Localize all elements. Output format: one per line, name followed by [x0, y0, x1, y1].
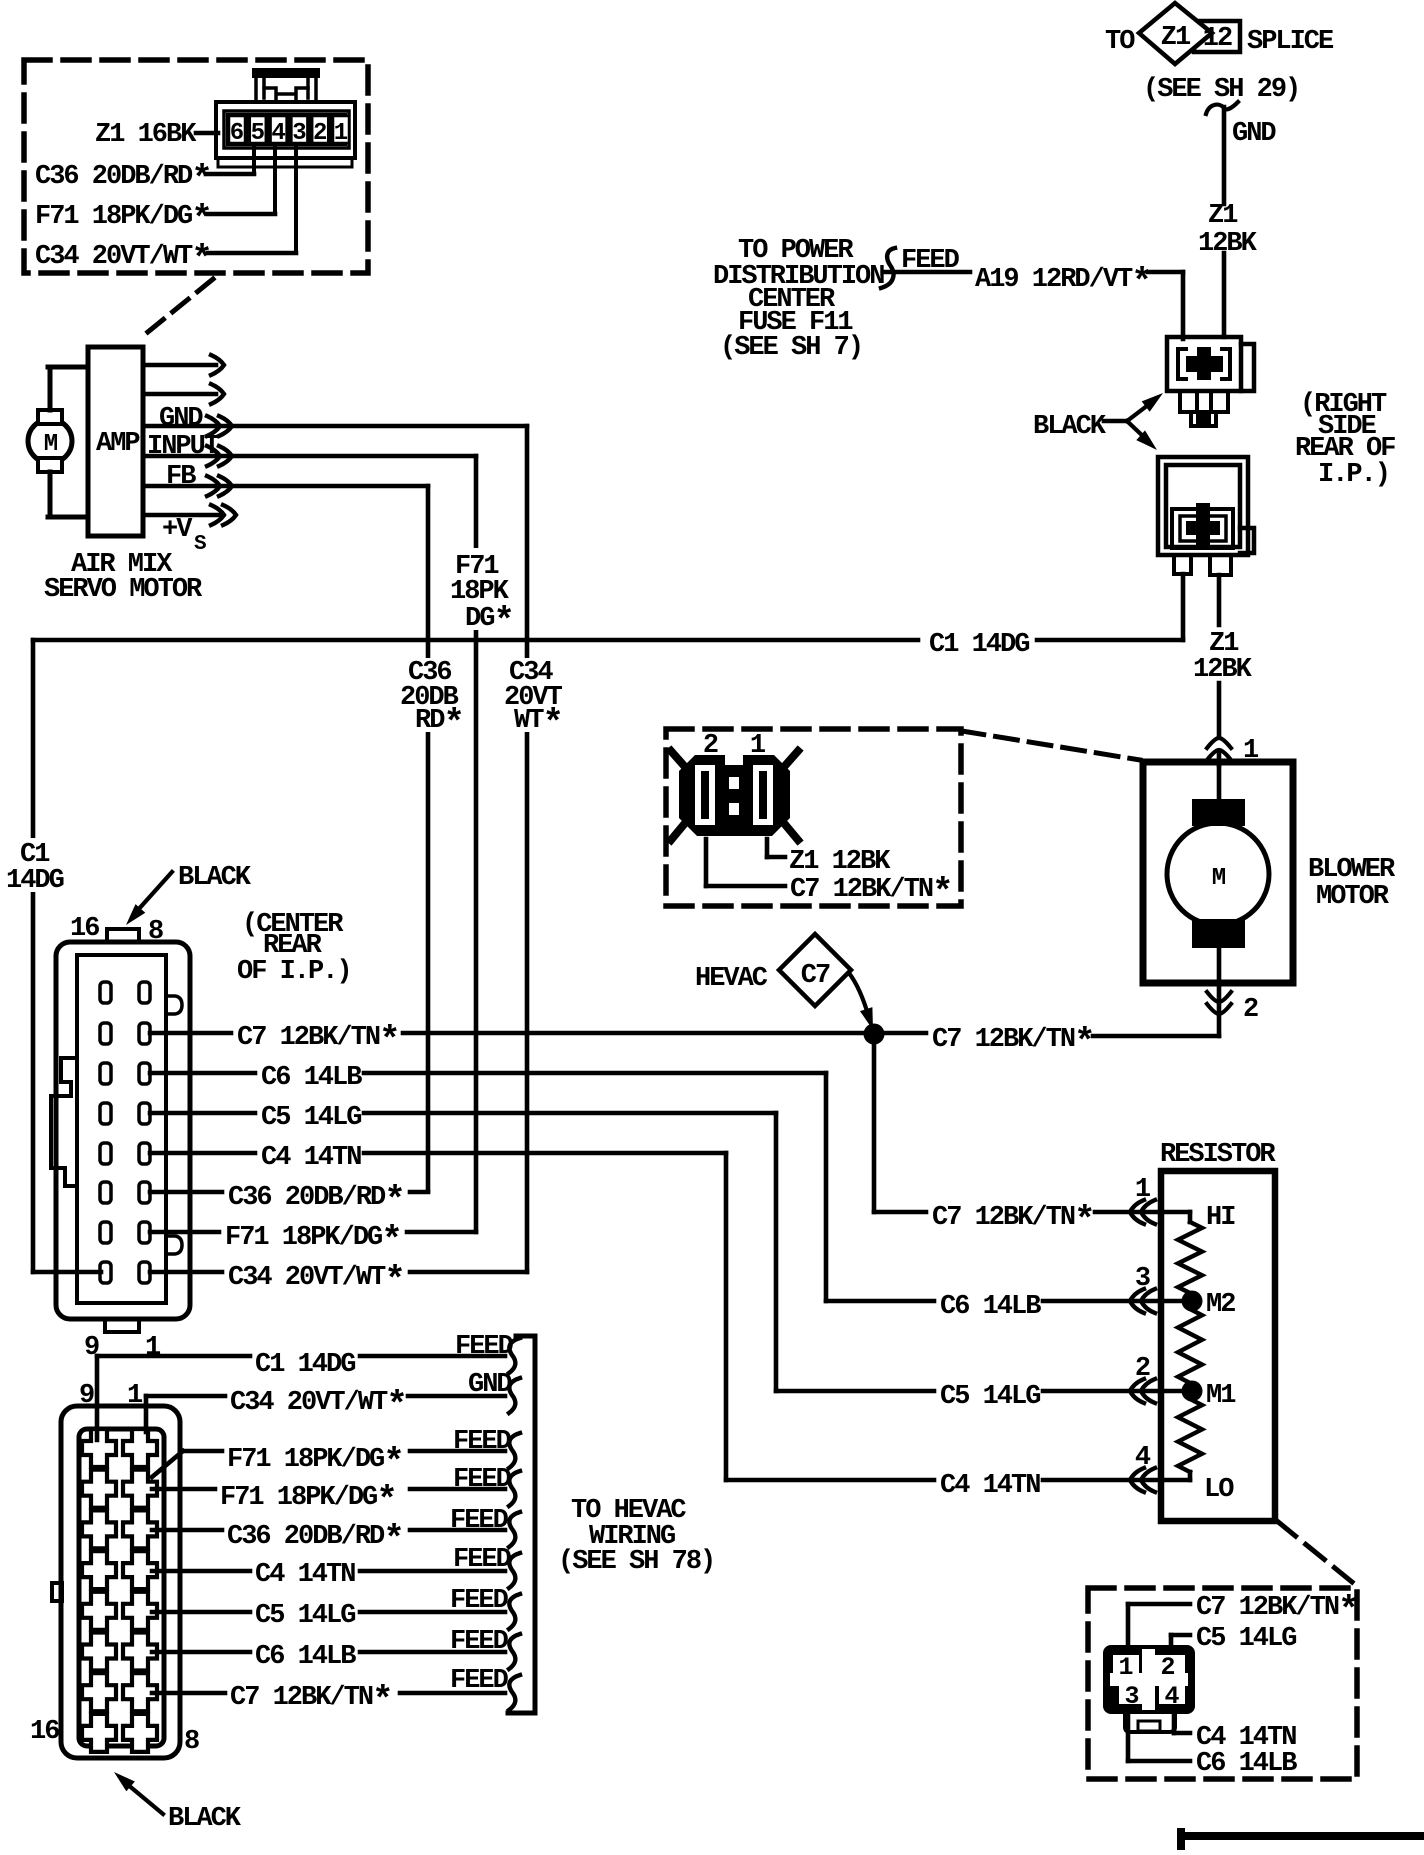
- svg-text:M: M: [44, 431, 58, 458]
- svg-text:12BK: 12BK: [1198, 229, 1258, 259]
- svg-text:C6 14LB: C6 14LB: [940, 1292, 1041, 1322]
- svg-text:Z1 16BK: Z1 16BK: [95, 120, 197, 150]
- svg-text:6: 6: [230, 120, 244, 147]
- svg-text:HI: HI: [1206, 1203, 1235, 1233]
- svg-text:I.P.): I.P.): [1318, 460, 1389, 490]
- svg-text:1: 1: [145, 1333, 161, 1363]
- svg-text:BLACK: BLACK: [1033, 412, 1107, 442]
- svg-text:GND: GND: [468, 1370, 512, 1400]
- svg-text:HEVAC: HEVAC: [695, 964, 768, 994]
- svg-text:M: M: [1212, 865, 1226, 892]
- svg-text:GND: GND: [159, 404, 203, 434]
- svg-text:2: 2: [1135, 1354, 1150, 1384]
- svg-text:2: 2: [1243, 995, 1258, 1025]
- svg-text:1: 1: [1118, 1653, 1132, 1682]
- svg-text:FEED: FEED: [455, 1332, 514, 1362]
- svg-text:1: 1: [1135, 1175, 1151, 1205]
- svg-text:C6 14LB: C6 14LB: [255, 1642, 356, 1672]
- svg-text:C5 14LG: C5 14LG: [1196, 1624, 1296, 1654]
- svg-text:C5 14LG: C5 14LG: [261, 1103, 361, 1133]
- svg-text:AMP: AMP: [96, 429, 140, 459]
- svg-text:C6 14LB: C6 14LB: [1196, 1749, 1297, 1779]
- svg-text:C4 14TN: C4 14TN: [255, 1560, 355, 1590]
- svg-text:INPUT: INPUT: [147, 432, 220, 462]
- svg-text:Z1: Z1: [1161, 23, 1191, 53]
- svg-text:Z1 12BK: Z1 12BK: [789, 847, 891, 877]
- svg-text:C7: C7: [801, 961, 830, 991]
- svg-text:4: 4: [1164, 1682, 1179, 1711]
- svg-text:S: S: [194, 533, 206, 556]
- svg-text:8: 8: [148, 917, 163, 947]
- svg-text:C1 14DG: C1 14DG: [255, 1350, 355, 1380]
- svg-text:BLACK: BLACK: [178, 863, 252, 893]
- svg-text:M1: M1: [1206, 1381, 1236, 1411]
- svg-text:4: 4: [1135, 1443, 1151, 1473]
- svg-text:FEED: FEED: [453, 1545, 512, 1575]
- svg-text:FEED: FEED: [450, 1506, 509, 1536]
- svg-text:2: 2: [1160, 1653, 1174, 1682]
- svg-text:C5 14LG: C5 14LG: [255, 1601, 355, 1631]
- svg-text:FEED: FEED: [450, 1666, 509, 1696]
- svg-text:(SEE SH 29): (SEE SH 29): [1143, 75, 1299, 105]
- svg-text:FEED: FEED: [450, 1586, 509, 1616]
- svg-text:C1 14DG: C1 14DG: [929, 630, 1029, 660]
- svg-text:Z1: Z1: [1208, 201, 1238, 231]
- svg-text:C4 14TN: C4 14TN: [940, 1471, 1040, 1501]
- svg-text:BLOWER: BLOWER: [1308, 855, 1396, 885]
- svg-text:BLACK: BLACK: [168, 1804, 242, 1834]
- svg-text:(SEE SH 78): (SEE SH 78): [558, 1547, 714, 1577]
- svg-text:1: 1: [127, 1381, 143, 1411]
- svg-text:+V: +V: [162, 515, 193, 545]
- svg-text:3: 3: [1124, 1682, 1138, 1711]
- svg-text:2: 2: [313, 120, 327, 147]
- svg-text:MOTOR: MOTOR: [1316, 882, 1390, 912]
- svg-text:C5 14LG: C5 14LG: [940, 1382, 1040, 1412]
- svg-text:5: 5: [251, 120, 265, 147]
- svg-text:SERVO MOTOR: SERVO MOTOR: [44, 575, 203, 605]
- svg-text:FEED: FEED: [453, 1465, 512, 1495]
- svg-text:3: 3: [292, 120, 306, 147]
- svg-text:GND: GND: [1232, 119, 1276, 149]
- svg-text:C4 14TN: C4 14TN: [261, 1143, 361, 1173]
- svg-text:(SEE SH 7): (SEE SH 7): [720, 333, 862, 363]
- svg-text:FEED: FEED: [450, 1627, 509, 1657]
- svg-text:RESISTOR: RESISTOR: [1160, 1140, 1276, 1170]
- svg-text:16: 16: [70, 914, 99, 944]
- svg-text:FB: FB: [166, 462, 196, 492]
- svg-text:TO: TO: [1105, 27, 1135, 57]
- svg-text:14DG: 14DG: [6, 866, 64, 896]
- svg-text:C6 14LB: C6 14LB: [261, 1063, 362, 1093]
- svg-text:SPLICE: SPLICE: [1247, 27, 1334, 57]
- svg-text:OF I.P.): OF I.P.): [237, 957, 351, 987]
- svg-text:9: 9: [79, 1381, 94, 1411]
- svg-text:1: 1: [334, 120, 348, 147]
- svg-text:M2: M2: [1206, 1290, 1235, 1320]
- svg-text:16: 16: [30, 1717, 59, 1747]
- svg-text:8: 8: [184, 1727, 199, 1757]
- svg-text:12: 12: [1203, 24, 1232, 54]
- svg-text:3: 3: [1135, 1264, 1150, 1294]
- svg-text:LO: LO: [1204, 1475, 1234, 1505]
- svg-text:12BK: 12BK: [1193, 655, 1253, 685]
- svg-text:FEED: FEED: [453, 1427, 512, 1457]
- svg-text:4: 4: [271, 120, 285, 147]
